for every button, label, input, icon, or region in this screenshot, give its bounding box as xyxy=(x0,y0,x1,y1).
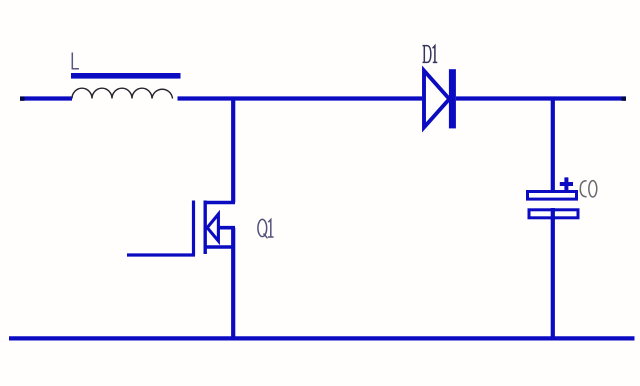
top plate xyxy=(528,192,577,200)
label C0 xyxy=(580,181,597,197)
label Q1 xyxy=(258,219,274,238)
inductor L coil xyxy=(72,88,173,98)
wire C0 bottom vertical xyxy=(551,219,555,339)
plus polarity mark xyxy=(560,177,573,190)
wire C0 top vertical xyxy=(551,99,555,192)
anode triangle xyxy=(424,71,449,128)
wire top-left segment xyxy=(20,97,72,101)
wire Q1 drain vertical xyxy=(231,99,235,203)
transistor Q1 xyxy=(127,201,235,256)
gate lead xyxy=(127,253,195,256)
diode D1 xyxy=(424,69,456,128)
label D1 xyxy=(423,46,438,63)
drain stub xyxy=(205,201,235,205)
label L xyxy=(72,53,79,69)
channel bar xyxy=(203,201,206,255)
wire top-right segment xyxy=(456,97,626,101)
source stub xyxy=(205,245,235,249)
wire Q1 source vertical xyxy=(231,228,235,339)
body stub xyxy=(218,226,235,230)
body arrow xyxy=(207,214,218,241)
inductor L core bar xyxy=(71,73,181,79)
bottom plate xyxy=(529,210,578,218)
capacitor C0 xyxy=(528,177,579,220)
cathode bar xyxy=(449,69,456,128)
wire bottom rail xyxy=(9,336,635,340)
plate wire crossing xyxy=(551,208,555,220)
wire top-mid segment xyxy=(178,96,423,100)
gate bar xyxy=(192,201,195,256)
